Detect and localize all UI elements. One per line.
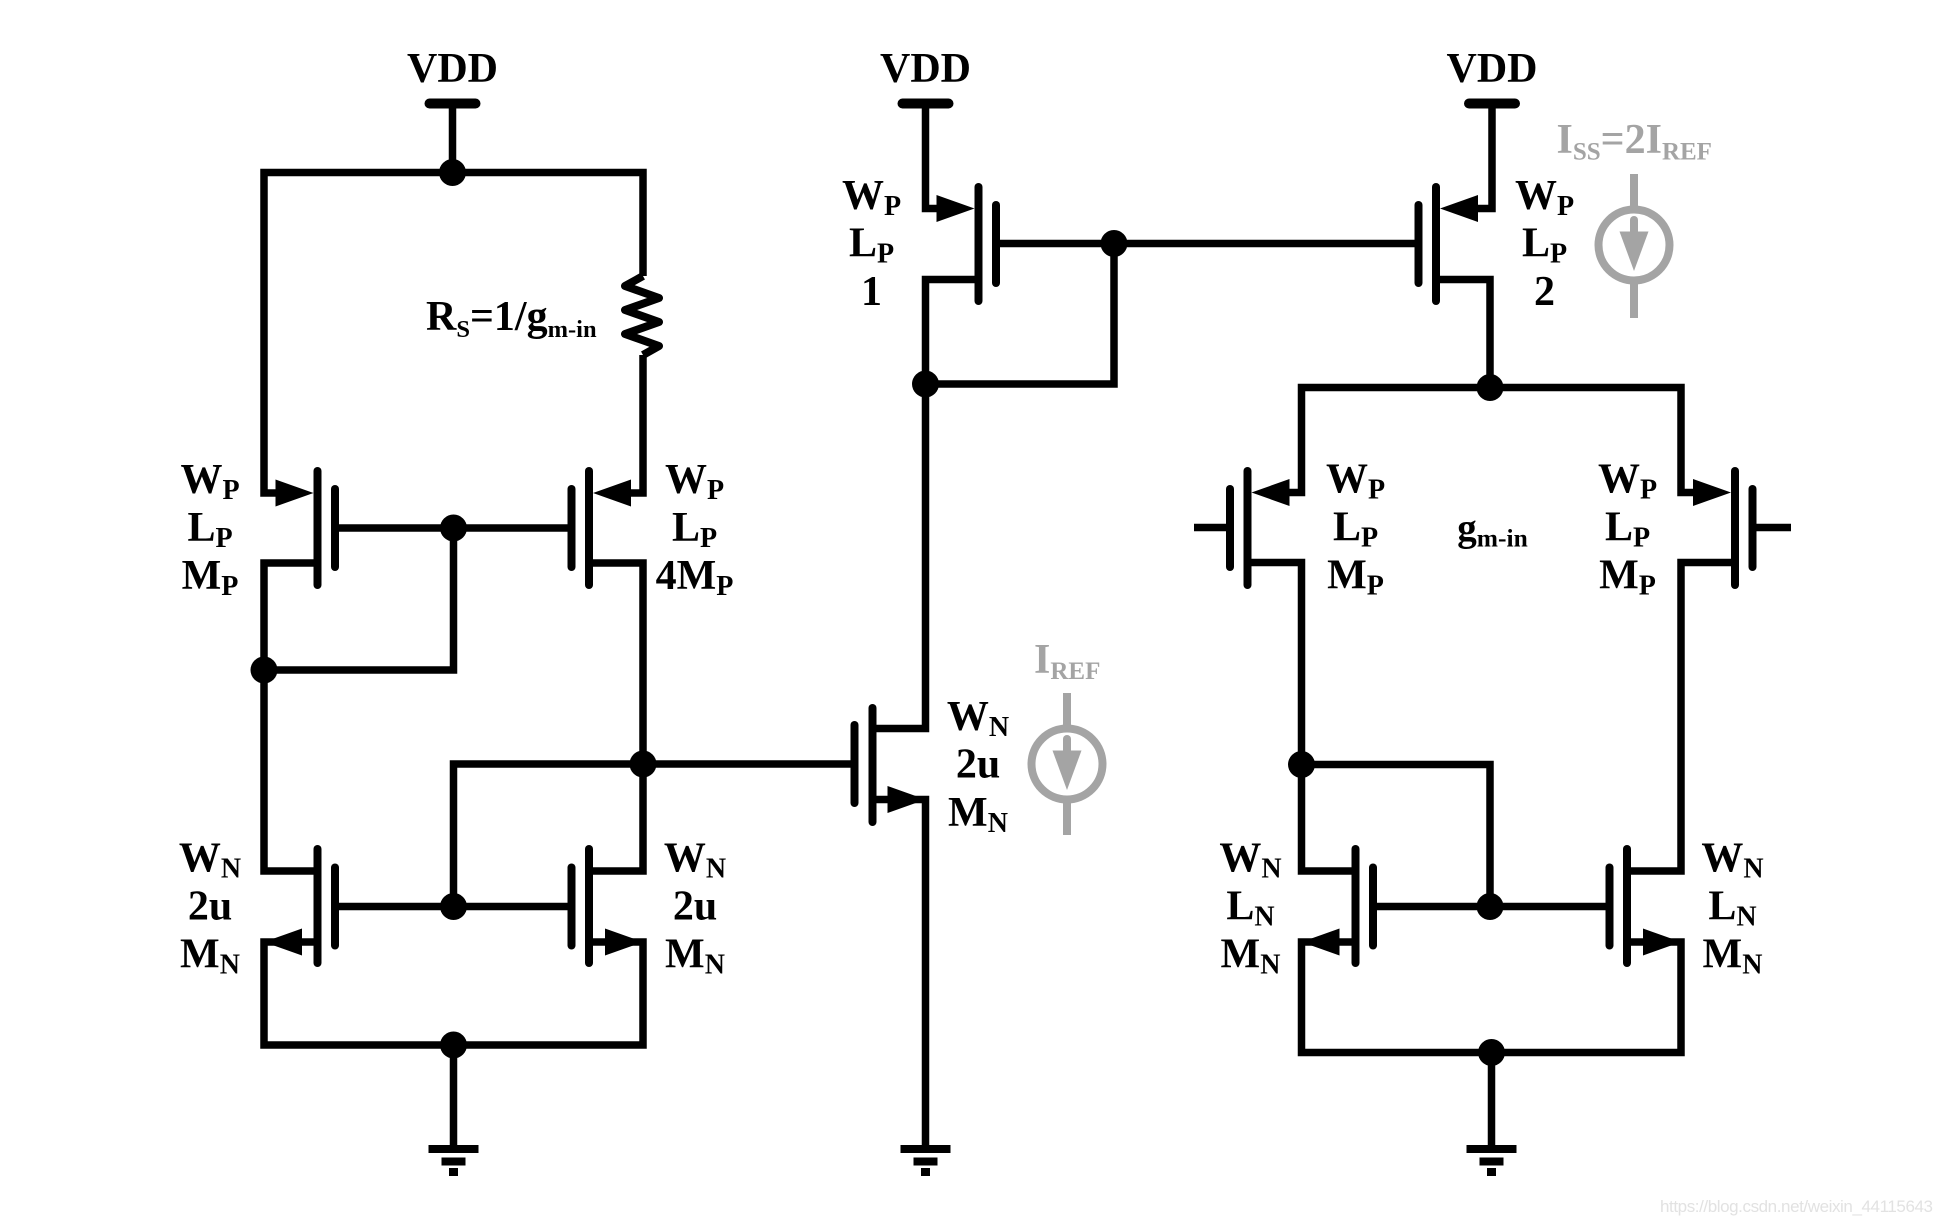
node 4MP drain junction (630, 751, 657, 778)
svg-text:2u: 2u (673, 884, 717, 930)
ground (middle) (901, 1149, 951, 1172)
transistor MP (left PMOS) (276, 471, 336, 585)
node bottom rail junction (left) (440, 1032, 467, 1059)
node left diff drain junction (1288, 751, 1315, 778)
transistor MN (right NMOS of left mirror) (572, 849, 644, 963)
node tail rail junction (1477, 374, 1504, 401)
wire diode link MP drain to gate line (264, 528, 454, 670)
node gate line junction (left PMOS pair) (440, 515, 467, 542)
wire gate line MP to 4MP (335, 524, 572, 532)
wire resistor to 4MP source (628, 355, 643, 493)
wire PMOS1 drain down to middle NMOS drain (877, 280, 975, 729)
transistor MP (right of gm-in diff pair) (1693, 471, 1791, 585)
node VDD rail junction (left) (439, 159, 466, 186)
transistor MN (left NMOS of left mirror) (264, 849, 335, 963)
wire VDD stub to top rail (left) (449, 104, 457, 177)
wire left diff drain down (1252, 563, 1352, 872)
svg-text:VDD: VDD (407, 46, 498, 92)
wire tail rail of differential pair (1283, 388, 1699, 493)
wire ground stub (right) (1488, 1053, 1496, 1150)
current source ISS (grey) (1599, 174, 1670, 318)
wire gate line (right NMOS mirror) (1373, 903, 1610, 911)
node bottom rail junction (right) (1478, 1039, 1505, 1066)
ground (left) (429, 1149, 479, 1172)
wire ground stub (left) (450, 1045, 458, 1149)
value label WP LP MP (left diff pair transistor) (1326, 457, 1385, 602)
transistor MN (left of right mirror) (1302, 849, 1374, 963)
resistor RS (625, 276, 659, 355)
wire 4MP drain down (593, 563, 643, 871)
wire MN sources and bottom rail (left) (264, 942, 643, 1045)
ground (right) (1467, 1149, 1517, 1172)
wire gate line PMOS1 to PMOS2 (996, 240, 1419, 248)
wire MP drain down (264, 563, 314, 871)
svg-text:2: 2 (1534, 269, 1555, 315)
value label WP LP MP (right diff pair transistor) (1598, 457, 1657, 602)
svg-text:VDD: VDD (880, 46, 971, 92)
transistor PMOS 2 (1419, 187, 1479, 301)
svg-text:2u: 2u (188, 884, 232, 930)
svg-text:VDD: VDD (1447, 46, 1538, 92)
value label WN 2u MN (left NMOS of left mirror) (179, 836, 241, 981)
node gate line junction (left NMOS mirror) (440, 893, 467, 920)
value label WN LN MN (right NMOS of right mirror) (1701, 836, 1763, 981)
value label WP LP 2 (transistor PMOS 2) (1515, 173, 1574, 315)
node gate line junction (top PMOS pair) (1101, 230, 1128, 257)
wire link diff drain to mirror gate (1302, 765, 1491, 907)
value label WP LP MP (transistor MP) (180, 457, 239, 602)
power symbol VDD (middle) (880, 46, 971, 104)
wire diode link PMOS1 gate to drain (926, 244, 1115, 385)
power symbol VDD (left) (407, 46, 498, 104)
node gate line junction (right NMOS mirror) (1477, 893, 1504, 920)
svg-text:2u: 2u (956, 742, 1000, 788)
wire VDD stub (right) (1472, 104, 1492, 209)
node MP drain junction (251, 657, 278, 684)
value label WP LP 4MP (transistor 4MP) (656, 457, 734, 602)
wire VDD stub (middle) (926, 104, 946, 209)
transistor 4MP (right PMOS of left mirror) (572, 471, 632, 585)
value label WP LP 1 (transistor PMOS 1) (842, 173, 901, 315)
node PMOS1 drain junction (912, 371, 939, 398)
power symbol VDD (right) (1447, 46, 1538, 104)
transistor WN 2u MN (middle NMOS) (855, 708, 926, 822)
value label WN LN MN (left NMOS of right mirror) (1219, 836, 1281, 981)
wire middle NMOS source down (877, 800, 926, 1150)
transistor MP (left of gm-in diff pair) (1194, 471, 1290, 585)
wire top rail (left) (264, 173, 643, 494)
wire gate line NMOS mirror (left) (335, 903, 572, 911)
value label WN 2u MN (right NMOS of left mirror) (664, 836, 726, 981)
svg-text:https://blog.csdn.net/weixin_4: https://blog.csdn.net/weixin_44115643 (1660, 1197, 1933, 1216)
wire right diff drain down (1631, 563, 1731, 872)
transistor PMOS 1 (937, 187, 997, 301)
wire NMOS gate riser to 4MP drain and middle NMOS gate (454, 764, 855, 907)
wire mirror sources and bottom rail (right) (1302, 942, 1682, 1053)
current source IREF (grey) (1032, 693, 1103, 835)
svg-text:1: 1 (861, 269, 882, 315)
wire PMOS2 drain down to tail rail (1440, 280, 1490, 388)
value label WN 2u MN (middle NMOS) (947, 694, 1009, 839)
transistor MN (right of right mirror) (1610, 849, 1682, 963)
